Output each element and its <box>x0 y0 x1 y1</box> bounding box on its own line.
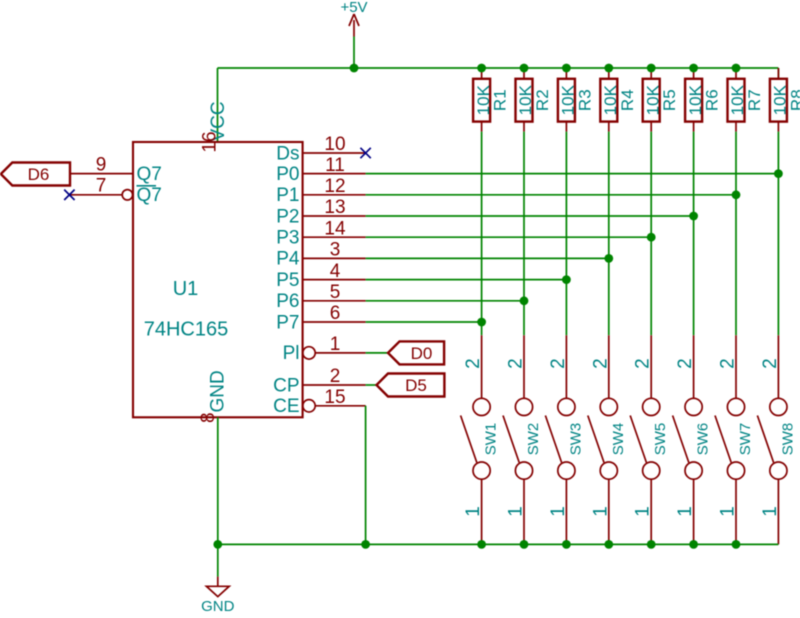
svg-text:P7: P7 <box>276 312 299 333</box>
svg-text:5: 5 <box>330 282 341 303</box>
pin 6 P7 label <box>276 303 340 333</box>
svg-text:9: 9 <box>96 154 107 175</box>
wire R7 to SW7 column <box>735 132 737 336</box>
junction top bus / R2 <box>520 64 529 73</box>
svg-text:1: 1 <box>675 506 696 517</box>
svg-text:1: 1 <box>718 506 739 517</box>
switch SW3 <box>545 335 584 544</box>
svg-text:1: 1 <box>548 506 569 517</box>
svg-text:74HC165: 74HC165 <box>144 319 229 341</box>
pin 2 CP label <box>273 366 340 396</box>
svg-text:R4: R4 <box>618 89 637 111</box>
svg-text:1: 1 <box>330 334 341 355</box>
wire P5 net <box>303 279 567 281</box>
pin 15 CE stub with bubble <box>303 400 366 412</box>
svg-text:R5: R5 <box>660 89 679 111</box>
svg-text:1: 1 <box>760 506 781 517</box>
junction top bus / R5 <box>647 64 656 73</box>
wire R2 to SW2 column <box>523 132 525 336</box>
junction +5V on top bus <box>350 64 359 73</box>
pin 5 P6 label <box>276 282 340 312</box>
svg-text:2: 2 <box>463 358 484 369</box>
pin 2 CP stub <box>303 384 366 386</box>
junction ground bus / GND <box>213 540 222 549</box>
svg-text:2: 2 <box>633 358 654 369</box>
svg-text:Q7: Q7 <box>137 185 162 206</box>
resistor R8 10K <box>770 68 800 132</box>
svg-text:+5V: +5V <box>340 0 367 16</box>
wire PL to D0 <box>366 352 388 354</box>
junction ground bus / SW2 <box>520 540 529 549</box>
junction ground bus / SW7 <box>732 540 741 549</box>
svg-text:7: 7 <box>96 176 107 197</box>
svg-text:P1: P1 <box>276 185 299 206</box>
svg-text:R2: R2 <box>533 89 552 111</box>
svg-text:SW6: SW6 <box>695 423 712 456</box>
junction P0 / R8 column <box>774 169 783 178</box>
svg-text:15: 15 <box>324 387 345 408</box>
op-amp U1 74HC165 body <box>133 142 303 417</box>
svg-text:Ds: Ds <box>276 143 299 164</box>
pin 13 P2 label <box>276 197 345 227</box>
svg-text:SW1: SW1 <box>483 423 500 456</box>
svg-text:10: 10 <box>324 134 345 155</box>
wire P2 net <box>303 215 694 217</box>
pin 4 P5 label <box>276 261 340 291</box>
svg-text:16: 16 <box>200 131 221 152</box>
svg-text:2: 2 <box>590 358 611 369</box>
resistor R6 10K <box>685 68 722 132</box>
pin 14 P3 label <box>276 218 346 248</box>
pin 9 Q7 <box>70 154 162 185</box>
junction top bus / R6 <box>689 64 698 73</box>
svg-text:P0: P0 <box>276 164 299 185</box>
wire R6 to SW6 column <box>693 132 695 336</box>
svg-text:1: 1 <box>506 506 527 517</box>
svg-text:R7: R7 <box>745 89 764 111</box>
wire U1 GND pin to ground bus <box>217 417 219 544</box>
svg-text:Pl: Pl <box>283 343 300 364</box>
junction top bus / R7 <box>732 64 741 73</box>
pin 12 P1 label <box>276 176 345 206</box>
svg-text:2: 2 <box>760 358 781 369</box>
svg-text:GND: GND <box>208 370 229 412</box>
junction P2 / R6 column <box>689 212 698 221</box>
svg-text:2: 2 <box>548 358 569 369</box>
svg-text:2: 2 <box>675 358 696 369</box>
svg-text:SW7: SW7 <box>737 423 754 456</box>
wire CE to ground bus <box>365 406 367 545</box>
svg-text:P4: P4 <box>276 249 300 270</box>
svg-text:4: 4 <box>330 261 341 282</box>
svg-text:P3: P3 <box>276 228 299 249</box>
junction top bus / R4 <box>604 64 613 73</box>
junction ground bus / CE wire <box>361 540 370 549</box>
junction ground bus / SW3 <box>562 540 571 549</box>
pin 8 GND <box>198 370 229 423</box>
pin 1 PL stub with bubble <box>303 347 366 359</box>
svg-text:11: 11 <box>325 155 345 176</box>
resistor R7 10K <box>728 68 765 132</box>
pin 11 P0 label <box>276 155 345 185</box>
svg-text:1: 1 <box>463 506 484 517</box>
no-connect X on Q7-bar <box>64 190 74 200</box>
no-connect X on Ds <box>360 148 370 158</box>
pin 10 Ds stub <box>303 152 366 154</box>
junction top bus / R1 <box>477 64 486 73</box>
wire ground bus <box>218 543 779 545</box>
svg-text:GND: GND <box>201 598 235 613</box>
junction ground bus / SW1 <box>477 540 486 549</box>
wire +5V stub <box>353 37 355 69</box>
svg-text:CP: CP <box>273 375 299 396</box>
hierarchical label D6 <box>1 163 70 186</box>
wire R4 to SW4 column <box>608 132 610 336</box>
wire P7 net <box>303 321 482 323</box>
wire CP to D5 <box>366 384 377 386</box>
junction ground bus / SW4 <box>604 540 613 549</box>
svg-text:D6: D6 <box>28 165 50 184</box>
pin 10 Ds label <box>276 134 345 164</box>
resistor R3 10K <box>558 68 595 132</box>
pin 16 VCC <box>200 101 230 152</box>
svg-text:2: 2 <box>506 358 527 369</box>
junction P6 / R2 column <box>520 296 529 305</box>
svg-text:D0: D0 <box>411 344 433 363</box>
resistor R1 10K <box>473 68 510 132</box>
svg-text:13: 13 <box>324 197 345 218</box>
resistor R4 10K <box>600 68 637 132</box>
svg-text:R6: R6 <box>703 89 722 111</box>
junction P5 / R3 column <box>562 275 571 284</box>
svg-text:8: 8 <box>198 412 219 423</box>
wire P3 net <box>303 236 652 238</box>
junction ground bus / SW5 <box>647 540 656 549</box>
junction P7 / R1 column <box>477 318 486 327</box>
switch SW6 <box>673 335 712 544</box>
svg-text:P5: P5 <box>276 270 299 291</box>
hierarchical label D5 <box>377 374 445 397</box>
junction P4 / R4 column <box>604 254 613 263</box>
svg-text:12: 12 <box>324 176 345 197</box>
svg-text:2: 2 <box>718 358 739 369</box>
svg-text:R3: R3 <box>575 89 594 111</box>
switch SW5 <box>630 335 669 544</box>
svg-text:P6: P6 <box>276 291 299 312</box>
svg-text:SW5: SW5 <box>652 423 669 456</box>
svg-text:3: 3 <box>330 240 341 261</box>
pin 15 CE label <box>273 387 345 417</box>
svg-text:1: 1 <box>633 506 654 517</box>
wire top +5V bus <box>218 68 779 142</box>
svg-text:R1: R1 <box>491 89 510 111</box>
svg-text:SW8: SW8 <box>779 423 796 456</box>
svg-text:SW2: SW2 <box>525 423 542 456</box>
pin 1 Pl label <box>283 334 341 364</box>
wire R5 to SW5 column <box>650 132 652 336</box>
svg-text:D5: D5 <box>405 376 427 395</box>
svg-text:R8: R8 <box>787 89 800 111</box>
hierarchical label D0 <box>388 341 444 364</box>
svg-text:SW4: SW4 <box>610 423 627 456</box>
wire R3 to SW3 column <box>565 132 567 336</box>
resistor R5 10K <box>643 68 680 132</box>
switch SW7 <box>715 335 754 544</box>
svg-text:2: 2 <box>330 366 341 387</box>
switch SW8 <box>757 335 796 544</box>
ground <box>201 544 235 615</box>
wire R8 to SW8 column <box>777 132 779 336</box>
svg-text:Q7: Q7 <box>137 164 162 185</box>
wire P1 net <box>303 194 736 196</box>
pin 3 P4 label <box>276 240 340 270</box>
junction top bus / R3 <box>562 64 571 73</box>
wire P0 net <box>303 173 779 175</box>
switch SW4 <box>588 335 627 544</box>
svg-text:14: 14 <box>324 218 346 239</box>
svg-text:U1: U1 <box>173 278 199 300</box>
svg-text:1: 1 <box>590 506 611 517</box>
switch SW2 <box>503 335 542 544</box>
wire R1 to SW1 column <box>481 132 483 336</box>
svg-text:P2: P2 <box>276 206 299 227</box>
svg-text:6: 6 <box>330 303 341 324</box>
junction ground bus / SW6 <box>689 540 698 549</box>
junction P3 / R5 column <box>647 233 656 242</box>
power symbol +5V <box>340 0 367 37</box>
pin 7 Q7-bar with bubble <box>69 176 161 207</box>
resistor R2 10K <box>516 68 553 132</box>
svg-text:SW3: SW3 <box>567 423 584 456</box>
svg-text:CE: CE <box>273 396 299 417</box>
wire P6 net <box>303 300 524 302</box>
switch SW1 <box>461 335 500 544</box>
wire P4 net <box>303 257 609 259</box>
junction P1 / R7 column <box>732 190 741 199</box>
